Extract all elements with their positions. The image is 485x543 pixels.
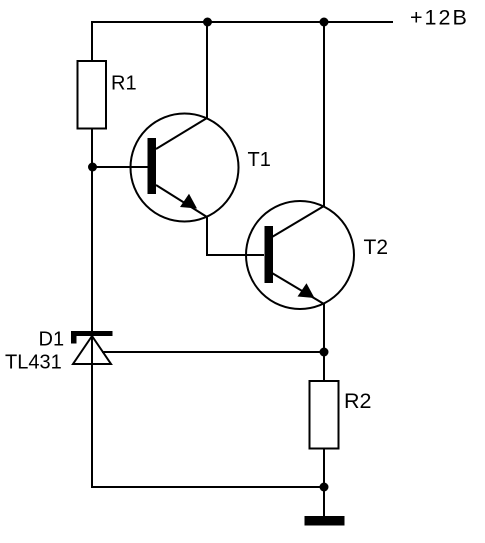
svg-text:T2: T2: [364, 236, 389, 259]
junction dot rail/T2 collector: [320, 18, 329, 27]
node A (R1 / T1 base / TL431 junction): [88, 163, 97, 172]
wire bottom rail: [92, 486, 324, 488]
svg-text:T1: T1: [248, 149, 271, 171]
wire R2 bottom to node C: [323, 448, 325, 488]
wire top +12V rail: [92, 21, 393, 23]
node C (R2 / bottom rail / ground): [320, 483, 329, 492]
wire T1 collector to top rail: [206, 21, 208, 119]
ground: [305, 516, 345, 526]
wire node B to R2 top: [323, 352, 325, 381]
transistor T2: [246, 201, 354, 309]
resistor R2: [310, 381, 339, 449]
diode D1 TL431: [71, 331, 113, 364]
svg-text:R2: R2: [344, 389, 371, 413]
svg-text:+12В: +12В: [410, 6, 469, 30]
wire T1 emitter to T2 base: [206, 254, 264, 256]
svg-text:D1: D1: [39, 329, 65, 351]
wire R1 bottom to node A: [91, 129, 93, 167]
wire left branch vertical (top rail to R1): [91, 21, 93, 61]
svg-text:TL431: TL431: [5, 352, 62, 374]
wire T1 emitter down: [206, 216, 208, 255]
node B (T2 emitter / R2 / TL431 ref): [320, 348, 329, 357]
junction dot rail/T1 collector: [203, 18, 212, 27]
resistor R1: [78, 61, 107, 129]
wire T2 collector to top rail: [323, 21, 325, 207]
transistor T1: [131, 114, 239, 222]
svg-text:R1: R1: [111, 73, 137, 95]
wire T2 emitter down to node B: [323, 303, 325, 352]
wire node A down through TL431 to bottom rail: [91, 167, 93, 488]
wire TL431 reference to node B: [102, 351, 324, 353]
wire node C to ground: [323, 487, 325, 517]
wire T1 base: [92, 166, 148, 168]
